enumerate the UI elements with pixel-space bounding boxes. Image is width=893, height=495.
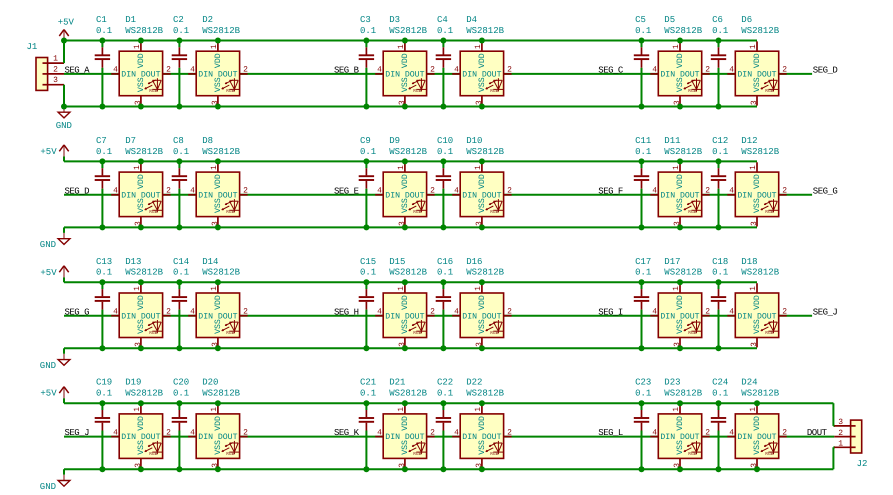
svg-text:C2: C2 <box>173 15 184 25</box>
svg-text:VSS: VSS <box>401 319 410 334</box>
svg-text:RGB: RGB <box>413 330 421 336</box>
svg-text:4: 4 <box>113 187 118 196</box>
svg-text:DIN: DIN <box>385 71 400 80</box>
svg-text:C14: C14 <box>173 257 189 267</box>
svg-text:WS2812B: WS2812B <box>202 389 240 399</box>
svg-text:VSS: VSS <box>753 198 762 213</box>
svg-text:VSS: VSS <box>676 198 685 213</box>
svg-text:VDD: VDD <box>478 174 487 189</box>
svg-text:1: 1 <box>672 44 681 49</box>
svg-text:SEG_G: SEG_G <box>65 307 90 317</box>
svg-text:0.1: 0.1 <box>635 268 651 278</box>
svg-text:GND: GND <box>56 121 72 131</box>
svg-text:RGB: RGB <box>765 451 773 457</box>
svg-text:SEG_G: SEG_G <box>813 186 838 196</box>
svg-text:VSS: VSS <box>401 77 410 92</box>
svg-text:2: 2 <box>507 428 512 437</box>
svg-text:4: 4 <box>729 428 734 437</box>
svg-text:0.1: 0.1 <box>96 268 112 278</box>
svg-text:0.1: 0.1 <box>96 389 112 399</box>
svg-text:1: 1 <box>397 44 406 49</box>
svg-text:0.1: 0.1 <box>635 147 651 157</box>
svg-text:SEG_J: SEG_J <box>813 307 838 317</box>
svg-text:WS2812B: WS2812B <box>466 268 504 278</box>
svg-text:1: 1 <box>749 407 758 412</box>
svg-text:J1: J1 <box>27 42 38 52</box>
svg-text:WS2812B: WS2812B <box>741 26 779 36</box>
svg-text:C9: C9 <box>360 136 371 146</box>
svg-text:4: 4 <box>377 307 382 316</box>
svg-text:WS2812B: WS2812B <box>664 268 702 278</box>
svg-text:WS2812B: WS2812B <box>202 26 240 36</box>
svg-text:1: 1 <box>397 165 406 170</box>
svg-text:VSS: VSS <box>478 440 487 455</box>
svg-text:2: 2 <box>782 307 787 316</box>
svg-text:0.1: 0.1 <box>437 268 453 278</box>
svg-text:VSS: VSS <box>753 440 762 455</box>
svg-text:1: 1 <box>397 286 406 291</box>
svg-text:1: 1 <box>749 165 758 170</box>
svg-text:C1: C1 <box>96 15 107 25</box>
svg-text:4: 4 <box>190 307 195 316</box>
svg-text:GND: GND <box>40 482 56 492</box>
svg-text:0.1: 0.1 <box>360 147 376 157</box>
svg-text:0.1: 0.1 <box>712 26 728 36</box>
svg-text:4: 4 <box>113 66 118 75</box>
svg-text:1: 1 <box>210 44 219 49</box>
svg-text:SEG_L: SEG_L <box>598 428 623 438</box>
svg-text:DIN: DIN <box>660 433 675 442</box>
svg-text:VSS: VSS <box>676 440 685 455</box>
svg-text:J2: J2 <box>857 459 868 469</box>
svg-text:DIN: DIN <box>737 433 752 442</box>
svg-text:D4: D4 <box>466 15 477 25</box>
svg-text:D12: D12 <box>741 136 757 146</box>
svg-text:RGB: RGB <box>490 209 498 215</box>
svg-text:DIN: DIN <box>121 312 136 321</box>
svg-text:VSS: VSS <box>753 77 762 92</box>
svg-text:2: 2 <box>430 307 435 316</box>
svg-text:D18: D18 <box>741 257 757 267</box>
svg-text:RGB: RGB <box>226 330 234 336</box>
svg-text:4: 4 <box>454 428 459 437</box>
svg-text:0.1: 0.1 <box>173 147 189 157</box>
svg-text:D16: D16 <box>466 257 482 267</box>
svg-text:1: 1 <box>210 286 219 291</box>
svg-text:D24: D24 <box>741 378 757 388</box>
svg-text:0.1: 0.1 <box>437 26 453 36</box>
svg-text:DIN: DIN <box>198 312 213 321</box>
svg-text:1: 1 <box>749 44 758 49</box>
svg-text:SEG_A: SEG_A <box>65 66 91 76</box>
svg-text:DIN: DIN <box>198 433 213 442</box>
svg-text:0.1: 0.1 <box>712 389 728 399</box>
svg-text:0.1: 0.1 <box>360 268 376 278</box>
svg-text:RGB: RGB <box>688 330 696 336</box>
svg-text:RGB: RGB <box>149 451 157 457</box>
svg-text:VDD: VDD <box>478 295 487 310</box>
svg-text:VSS: VSS <box>137 198 146 213</box>
svg-text:0.1: 0.1 <box>635 26 651 36</box>
svg-text:4: 4 <box>377 187 382 196</box>
svg-text:VSS: VSS <box>478 319 487 334</box>
svg-text:4: 4 <box>190 187 195 196</box>
svg-text:2: 2 <box>166 428 171 437</box>
svg-text:VDD: VDD <box>753 295 762 310</box>
svg-text:RGB: RGB <box>149 330 157 336</box>
svg-text:2: 2 <box>782 187 787 196</box>
svg-text:RGB: RGB <box>413 88 421 94</box>
svg-text:4: 4 <box>729 66 734 75</box>
svg-text:2: 2 <box>53 65 58 74</box>
svg-text:4: 4 <box>190 66 195 75</box>
svg-text:1: 1 <box>749 286 758 291</box>
svg-text:SEG_E: SEG_E <box>334 186 359 196</box>
svg-text:RGB: RGB <box>765 88 773 94</box>
svg-text:2: 2 <box>166 66 171 75</box>
svg-text:GND: GND <box>40 240 56 250</box>
svg-text:2: 2 <box>838 429 843 438</box>
svg-text:DIN: DIN <box>198 71 213 80</box>
svg-text:DOUT: DOUT <box>807 428 828 438</box>
svg-text:+5V: +5V <box>58 18 75 28</box>
svg-text:0.1: 0.1 <box>437 147 453 157</box>
svg-text:C10: C10 <box>437 136 453 146</box>
svg-text:D3: D3 <box>389 15 400 25</box>
svg-text:VSS: VSS <box>676 319 685 334</box>
svg-text:VDD: VDD <box>214 53 223 68</box>
svg-text:1: 1 <box>133 165 142 170</box>
svg-text:RGB: RGB <box>226 88 234 94</box>
svg-text:WS2812B: WS2812B <box>202 268 240 278</box>
svg-text:DIN: DIN <box>660 191 675 200</box>
svg-text:VSS: VSS <box>214 440 223 455</box>
svg-text:RGB: RGB <box>413 209 421 215</box>
svg-text:RGB: RGB <box>490 330 498 336</box>
svg-text:VDD: VDD <box>753 53 762 68</box>
svg-text:C13: C13 <box>96 257 112 267</box>
svg-text:C20: C20 <box>173 378 189 388</box>
svg-text:WS2812B: WS2812B <box>389 26 427 36</box>
svg-text:D14: D14 <box>202 257 218 267</box>
svg-text:VDD: VDD <box>137 416 146 431</box>
svg-text:DIN: DIN <box>462 433 477 442</box>
svg-text:D11: D11 <box>664 136 680 146</box>
svg-text:2: 2 <box>705 66 710 75</box>
svg-text:DIN: DIN <box>121 71 136 80</box>
svg-text:WS2812B: WS2812B <box>125 147 163 157</box>
svg-text:C19: C19 <box>96 378 112 388</box>
svg-text:2: 2 <box>166 307 171 316</box>
svg-text:WS2812B: WS2812B <box>741 389 779 399</box>
svg-text:VDD: VDD <box>401 416 410 431</box>
svg-text:3: 3 <box>750 100 759 105</box>
svg-text:1: 1 <box>210 165 219 170</box>
svg-text:SEG_K: SEG_K <box>334 428 360 438</box>
svg-text:0.1: 0.1 <box>96 147 112 157</box>
svg-text:C3: C3 <box>360 15 371 25</box>
svg-text:D5: D5 <box>664 15 675 25</box>
svg-text:WS2812B: WS2812B <box>664 389 702 399</box>
svg-text:WS2812B: WS2812B <box>389 268 427 278</box>
svg-text:VSS: VSS <box>137 440 146 455</box>
svg-text:RGB: RGB <box>688 209 696 215</box>
svg-text:C11: C11 <box>635 136 651 146</box>
svg-text:VSS: VSS <box>478 77 487 92</box>
svg-text:VSS: VSS <box>401 440 410 455</box>
svg-text:DIN: DIN <box>385 433 400 442</box>
svg-text:DIN: DIN <box>660 71 675 80</box>
svg-text:WS2812B: WS2812B <box>741 147 779 157</box>
svg-text:RGB: RGB <box>765 330 773 336</box>
svg-text:SEG_D: SEG_D <box>65 186 90 196</box>
svg-text:WS2812B: WS2812B <box>466 147 504 157</box>
svg-text:D9: D9 <box>389 136 400 146</box>
svg-text:SEG_B: SEG_B <box>334 66 360 76</box>
svg-text:0.1: 0.1 <box>712 147 728 157</box>
svg-text:VDD: VDD <box>676 174 685 189</box>
svg-text:DIN: DIN <box>737 191 752 200</box>
svg-text:0.1: 0.1 <box>173 268 189 278</box>
svg-text:2: 2 <box>243 307 248 316</box>
svg-text:1: 1 <box>133 407 142 412</box>
svg-text:WS2812B: WS2812B <box>389 147 427 157</box>
svg-text:2: 2 <box>430 428 435 437</box>
svg-text:VDD: VDD <box>676 416 685 431</box>
svg-text:DIN: DIN <box>462 71 477 80</box>
svg-text:1: 1 <box>53 55 58 64</box>
svg-text:RGB: RGB <box>226 209 234 215</box>
svg-text:WS2812B: WS2812B <box>466 389 504 399</box>
svg-text:VDD: VDD <box>137 174 146 189</box>
svg-text:2: 2 <box>782 428 787 437</box>
svg-text:DIN: DIN <box>385 191 400 200</box>
svg-text:C4: C4 <box>437 15 448 25</box>
svg-text:WS2812B: WS2812B <box>125 26 163 36</box>
svg-text:D20: D20 <box>202 378 218 388</box>
svg-text:1: 1 <box>210 407 219 412</box>
svg-text:RGB: RGB <box>149 209 157 215</box>
svg-text:VDD: VDD <box>753 416 762 431</box>
svg-text:4: 4 <box>113 307 118 316</box>
svg-text:WS2812B: WS2812B <box>389 389 427 399</box>
svg-text:VDD: VDD <box>676 53 685 68</box>
svg-text:RGB: RGB <box>688 88 696 94</box>
svg-text:0.1: 0.1 <box>96 26 112 36</box>
svg-text:RGB: RGB <box>688 451 696 457</box>
svg-text:C22: C22 <box>437 378 453 388</box>
svg-text:2: 2 <box>166 187 171 196</box>
svg-text:DIN: DIN <box>660 312 675 321</box>
svg-text:DIN: DIN <box>462 191 477 200</box>
svg-text:C12: C12 <box>712 136 728 146</box>
svg-text:C16: C16 <box>437 257 453 267</box>
svg-text:4: 4 <box>377 428 382 437</box>
svg-text:0.1: 0.1 <box>635 389 651 399</box>
svg-text:2: 2 <box>243 66 248 75</box>
svg-text:4: 4 <box>652 66 657 75</box>
svg-text:VDD: VDD <box>401 174 410 189</box>
svg-text:C7: C7 <box>96 136 107 146</box>
svg-text:C18: C18 <box>712 257 728 267</box>
svg-text:D8: D8 <box>202 136 213 146</box>
svg-text:4: 4 <box>652 428 657 437</box>
svg-text:RGB: RGB <box>765 209 773 215</box>
svg-text:2: 2 <box>507 307 512 316</box>
svg-text:C15: C15 <box>360 257 376 267</box>
svg-text:C17: C17 <box>635 257 651 267</box>
svg-text:DIN: DIN <box>462 312 477 321</box>
svg-text:2: 2 <box>243 428 248 437</box>
svg-text:1: 1 <box>474 44 483 49</box>
svg-text:4: 4 <box>652 187 657 196</box>
svg-text:VSS: VSS <box>214 77 223 92</box>
svg-text:VSS: VSS <box>214 319 223 334</box>
svg-text:0.1: 0.1 <box>437 389 453 399</box>
svg-text:4: 4 <box>729 307 734 316</box>
svg-text:SEG_F: SEG_F <box>598 186 623 196</box>
svg-text:1: 1 <box>133 44 142 49</box>
svg-text:4: 4 <box>377 66 382 75</box>
svg-text:4: 4 <box>454 307 459 316</box>
svg-text:WS2812B: WS2812B <box>664 26 702 36</box>
svg-text:1: 1 <box>672 407 681 412</box>
svg-text:D1: D1 <box>125 15 136 25</box>
svg-text:WS2812B: WS2812B <box>202 147 240 157</box>
svg-text:1: 1 <box>474 286 483 291</box>
svg-text:3: 3 <box>53 76 58 85</box>
svg-text:1: 1 <box>397 407 406 412</box>
svg-text:DIN: DIN <box>198 191 213 200</box>
svg-text:VSS: VSS <box>676 77 685 92</box>
svg-text:SEG_D: SEG_D <box>813 66 838 76</box>
svg-text:VSS: VSS <box>478 198 487 213</box>
svg-text:0.1: 0.1 <box>360 26 376 36</box>
svg-text:0.1: 0.1 <box>173 389 189 399</box>
svg-text:VSS: VSS <box>214 198 223 213</box>
svg-text:D10: D10 <box>466 136 482 146</box>
svg-text:VDD: VDD <box>137 53 146 68</box>
svg-text:2: 2 <box>705 428 710 437</box>
svg-text:4: 4 <box>652 307 657 316</box>
svg-text:WS2812B: WS2812B <box>741 268 779 278</box>
svg-text:4: 4 <box>729 187 734 196</box>
svg-text:D15: D15 <box>389 257 405 267</box>
svg-text:4: 4 <box>190 428 195 437</box>
svg-text:2: 2 <box>430 187 435 196</box>
svg-text:SEG_I: SEG_I <box>598 307 623 317</box>
svg-text:2: 2 <box>782 66 787 75</box>
svg-text:WS2812B: WS2812B <box>125 268 163 278</box>
svg-text:4: 4 <box>454 187 459 196</box>
svg-text:C8: C8 <box>173 136 184 146</box>
svg-text:VDD: VDD <box>214 295 223 310</box>
svg-text:4: 4 <box>454 66 459 75</box>
svg-text:2: 2 <box>705 187 710 196</box>
svg-text:2: 2 <box>507 187 512 196</box>
svg-text:D6: D6 <box>741 15 752 25</box>
svg-text:VSS: VSS <box>137 319 146 334</box>
svg-text:SEG_J: SEG_J <box>65 428 90 438</box>
svg-text:VDD: VDD <box>214 174 223 189</box>
svg-text:2: 2 <box>705 307 710 316</box>
svg-text:DIN: DIN <box>385 312 400 321</box>
svg-text:VDD: VDD <box>401 53 410 68</box>
svg-text:C24: C24 <box>712 378 728 388</box>
svg-text:1: 1 <box>672 165 681 170</box>
svg-text:RGB: RGB <box>226 451 234 457</box>
svg-text:VDD: VDD <box>478 416 487 431</box>
svg-text:DIN: DIN <box>121 433 136 442</box>
svg-text:WS2812B: WS2812B <box>125 389 163 399</box>
svg-text:VDD: VDD <box>137 295 146 310</box>
svg-text:SEG_C: SEG_C <box>598 66 624 76</box>
svg-text:3: 3 <box>750 221 759 226</box>
svg-text:4: 4 <box>113 428 118 437</box>
svg-text:0.1: 0.1 <box>173 26 189 36</box>
svg-text:2: 2 <box>507 66 512 75</box>
svg-text:D17: D17 <box>664 257 680 267</box>
svg-text:WS2812B: WS2812B <box>466 26 504 36</box>
svg-text:3: 3 <box>838 418 843 427</box>
svg-text:3: 3 <box>750 342 759 347</box>
svg-text:VSS: VSS <box>753 319 762 334</box>
svg-text:+5V: +5V <box>40 147 57 157</box>
svg-text:+5V: +5V <box>40 389 57 399</box>
svg-text:DIN: DIN <box>121 191 136 200</box>
svg-text:1: 1 <box>474 165 483 170</box>
svg-text:D13: D13 <box>125 257 141 267</box>
svg-text:C21: C21 <box>360 378 376 388</box>
svg-text:2: 2 <box>243 187 248 196</box>
svg-text:1: 1 <box>474 407 483 412</box>
svg-text:VDD: VDD <box>401 295 410 310</box>
svg-text:SEG_H: SEG_H <box>334 307 359 317</box>
svg-text:D2: D2 <box>202 15 213 25</box>
svg-text:GND: GND <box>40 361 56 371</box>
svg-text:C6: C6 <box>712 15 723 25</box>
svg-text:VDD: VDD <box>676 295 685 310</box>
svg-text:VDD: VDD <box>478 53 487 68</box>
svg-text:VDD: VDD <box>214 416 223 431</box>
svg-text:0.1: 0.1 <box>712 268 728 278</box>
svg-text:C23: C23 <box>635 378 651 388</box>
svg-text:D21: D21 <box>389 378 405 388</box>
svg-text:0.1: 0.1 <box>360 389 376 399</box>
svg-text:WS2812B: WS2812B <box>664 147 702 157</box>
svg-text:D23: D23 <box>664 378 680 388</box>
svg-text:D7: D7 <box>125 136 136 146</box>
svg-text:2: 2 <box>430 66 435 75</box>
svg-text:1: 1 <box>133 286 142 291</box>
svg-text:RGB: RGB <box>490 88 498 94</box>
svg-text:1: 1 <box>672 286 681 291</box>
svg-text:D22: D22 <box>466 378 482 388</box>
svg-text:VSS: VSS <box>137 77 146 92</box>
svg-text:D19: D19 <box>125 378 141 388</box>
svg-text:VDD: VDD <box>753 174 762 189</box>
svg-text:DIN: DIN <box>737 71 752 80</box>
svg-text:1: 1 <box>838 440 843 449</box>
svg-text:RGB: RGB <box>413 451 421 457</box>
svg-text:C5: C5 <box>635 15 646 25</box>
svg-text:+5V: +5V <box>40 268 57 278</box>
svg-text:RGB: RGB <box>149 88 157 94</box>
svg-text:VSS: VSS <box>401 198 410 213</box>
svg-text:RGB: RGB <box>490 451 498 457</box>
svg-text:DIN: DIN <box>737 312 752 321</box>
